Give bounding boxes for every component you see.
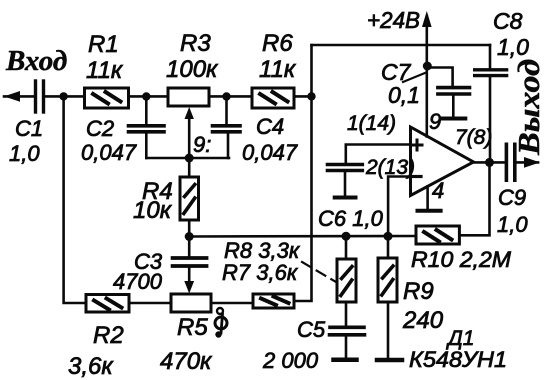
node R1-R3 junction [142, 92, 150, 100]
svg-text:С9: С9 [498, 185, 526, 210]
node output junction [485, 158, 494, 167]
ground R9 [377, 358, 402, 363]
wire C2-C4 bottom [146, 157, 229, 160]
capacitor C4 label [242, 114, 298, 165]
svg-text:+24В: +24В [367, 7, 420, 33]
svg-text:R5: R5 [177, 314, 208, 341]
resistor R1 [85, 88, 129, 108]
resistor R9 [378, 236, 397, 358]
capacitor C8 label [493, 8, 529, 60]
power +24V label [367, 7, 420, 33]
wire R5 to R7 [211, 302, 253, 305]
node wiper junction [185, 154, 194, 163]
wire output arrow [517, 157, 540, 168]
resistor R4 label [133, 178, 173, 224]
resistor R5 label [160, 314, 213, 375]
capacitor C8 [475, 45, 507, 162]
svg-text:R10 2,2М: R10 2,2М [411, 247, 512, 272]
power +24V arrow wire [422, 11, 432, 137]
svg-text:К548УН1: К548УН1 [409, 347, 507, 372]
svg-text:100к: 100к [166, 56, 219, 83]
wire dashed leader to R8 [302, 262, 336, 282]
potentiometer R3 [168, 88, 209, 106]
resistor R10 label [411, 247, 512, 272]
wire noninverting input [346, 145, 411, 164]
resistor R8 R7 labels [222, 238, 301, 285]
op-amp plus sign [412, 140, 422, 150]
svg-text:3,6к: 3,6к [68, 353, 114, 380]
capacitor C3 [173, 237, 207, 294]
svg-text:С8: С8 [493, 8, 523, 34]
svg-text:R3: R3 [180, 30, 211, 57]
capacitor C2 [129, 97, 165, 159]
svg-text:С4: С4 [256, 114, 284, 139]
capacitor C7 label [381, 59, 420, 108]
resistor R10 [416, 226, 459, 244]
svg-text:4: 4 [432, 178, 444, 203]
capacitor C7 [438, 88, 470, 117]
resistor R1 label [86, 31, 124, 84]
resistor R9 label [402, 278, 444, 334]
node R9 rail junction [384, 232, 393, 241]
capacitor C2 label [81, 116, 137, 165]
wire left vertical to R2 [64, 96, 86, 303]
svg-text:1,0: 1,0 [497, 34, 529, 60]
svg-text:0,047: 0,047 [81, 140, 137, 165]
pin label 1(14) [347, 112, 396, 135]
node R8 rail junction [342, 232, 351, 241]
pin label 4 [432, 178, 444, 203]
svg-text:4700: 4700 [113, 269, 163, 294]
svg-text:1(14): 1(14) [347, 112, 396, 135]
capacitor C1 [36, 81, 44, 112]
svg-text:Выход: Выход [511, 59, 546, 156]
ground C7 [442, 117, 465, 121]
capacitor C6 label [318, 206, 384, 231]
capacitor C3 label [113, 249, 163, 294]
svg-text:R7 3,6к: R7 3,6к [222, 260, 299, 285]
svg-text:С5: С5 [297, 317, 326, 342]
capacitor C5 label [262, 317, 326, 373]
ground C6 [335, 196, 356, 200]
wire R2 to R5 [129, 302, 171, 305]
wire top rail [312, 44, 491, 47]
chip label D1 [409, 327, 507, 372]
resistor R6 label [259, 30, 297, 83]
node Выход output label [511, 59, 546, 156]
op-amp minus sign [412, 175, 421, 178]
wire feedback from output [459, 162, 489, 235]
svg-text:470к: 470к [160, 348, 213, 375]
svg-text:0,047: 0,047 [242, 140, 298, 165]
svg-text:10к: 10к [133, 197, 173, 224]
svg-text:R6: R6 [262, 30, 293, 57]
wire pin4 ground stem [426, 186, 429, 209]
ground C5 [334, 358, 357, 363]
pin label 2(13) [365, 156, 415, 179]
svg-text:R1: R1 [88, 31, 119, 58]
potentiometer R5 [171, 294, 211, 312]
node +24V junction [423, 62, 432, 71]
capacitor C6 [327, 165, 362, 196]
svg-text:240: 240 [402, 307, 444, 334]
wire C7 branch [427, 68, 452, 87]
svg-text:2(13): 2(13) [365, 156, 415, 179]
pin label 7(8) [455, 126, 492, 149]
symbol adjustment mark [215, 308, 227, 338]
resistor R2 label [68, 322, 124, 380]
svg-text:7(8): 7(8) [455, 126, 492, 149]
wire input arrow [4, 91, 34, 102]
svg-text:С1: С1 [15, 116, 43, 141]
node R3-R6 junction [222, 92, 230, 100]
capacitor C4 [213, 97, 241, 159]
svg-text:9: 9 [429, 109, 441, 134]
resistor R7 [253, 294, 294, 308]
node rail left junction [185, 232, 194, 241]
wire R1 to R3 [129, 95, 169, 98]
wire inverting input [388, 177, 410, 237]
svg-text:R2: R2 [93, 322, 124, 349]
svg-text:11к: 11к [259, 56, 297, 83]
resistor R3 label [166, 30, 219, 83]
wire C1 to R1 [45, 95, 84, 98]
wire R3 wiper arrow [185, 107, 194, 158]
node Вход input label [5, 45, 67, 77]
resistor R8 [337, 236, 356, 302]
svg-text:11к: 11к [86, 57, 124, 84]
pin label 9 [429, 109, 441, 134]
op-amp U1 [411, 127, 474, 196]
svg-text:0,1: 0,1 [388, 82, 420, 108]
svg-text:9:: 9: [193, 132, 211, 157]
node R6 junction [307, 92, 315, 100]
svg-text:Вход: Вход [5, 45, 67, 77]
resistor R4 [180, 158, 199, 237]
wire R3 to R6 [209, 95, 252, 98]
wire C7 leader [403, 73, 426, 83]
wire middle vertical x311 [294, 45, 312, 301]
svg-text:2 000: 2 000 [262, 348, 319, 373]
wire op-amp output [474, 161, 505, 164]
node input junction [59, 92, 67, 100]
svg-text:R9: R9 [403, 278, 434, 305]
svg-text:1,0: 1,0 [497, 212, 528, 237]
ground pin4 [418, 209, 441, 213]
resistor R6 [252, 88, 294, 108]
capacitor C9 [506, 144, 514, 180]
capacitor C9 label [497, 185, 528, 237]
svg-text:С2: С2 [86, 116, 114, 141]
resistor R2 [86, 295, 129, 313]
capacitor C1 value label [9, 116, 43, 166]
wire R6 to middle vertical [294, 95, 312, 98]
capacitor C5 [330, 302, 365, 358]
svg-text:С6 1,0: С6 1,0 [318, 206, 384, 231]
svg-text:1,0: 1,0 [9, 141, 40, 166]
node mark 9 [193, 132, 211, 157]
wire feedback rail [189, 235, 416, 238]
